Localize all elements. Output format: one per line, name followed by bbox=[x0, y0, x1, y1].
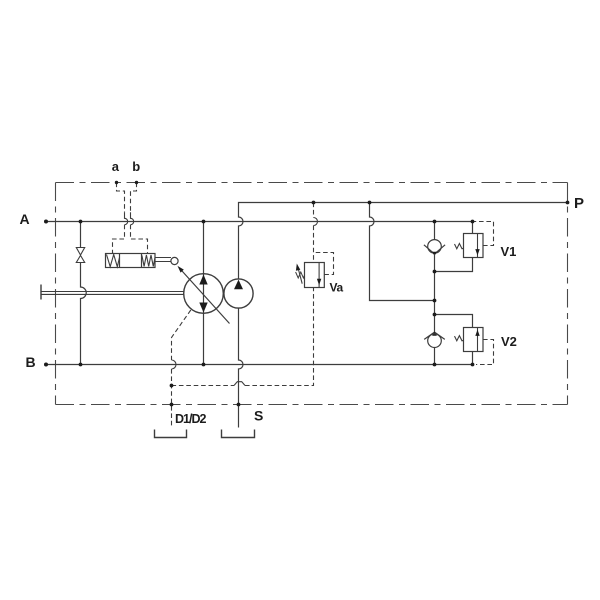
svg-text:D1/D2: D1/D2 bbox=[175, 412, 206, 426]
node Va on P bbox=[312, 201, 316, 205]
node S on boundary bbox=[237, 403, 241, 407]
node supply bbox=[433, 299, 437, 303]
Va adjustment arrow bbox=[299, 270, 303, 284]
boundary frame (dash-dot envelope) bbox=[56, 183, 568, 405]
wire line B bbox=[46, 364, 473, 366]
shaft end bar bbox=[40, 285, 42, 300]
V2 pilot line (dashed) bbox=[476, 340, 494, 365]
Va spring bbox=[296, 272, 305, 278]
svg-text:A: A bbox=[20, 211, 30, 227]
supply riser from P to check valve column bbox=[370, 203, 435, 301]
V2 flow line with up arrow bbox=[477, 328, 479, 352]
lever pin circle bbox=[171, 257, 178, 264]
servo piston left wall bbox=[119, 254, 121, 268]
servo rod (double line) bbox=[155, 258, 171, 262]
wire node to V2 inlet bbox=[435, 315, 473, 328]
svg-text:a: a bbox=[112, 159, 120, 174]
pilot b hop over line A bbox=[131, 212, 134, 224]
node V2 outlet on B bbox=[471, 363, 475, 367]
svg-text:B: B bbox=[26, 354, 36, 370]
wire CV1 to V1 return node bbox=[434, 254, 436, 272]
V1 spring bbox=[455, 244, 464, 249]
servo piston right wall bbox=[141, 254, 143, 268]
wire node to CV2 bbox=[434, 315, 436, 333]
wire CV2 to line B bbox=[434, 348, 436, 365]
node P port bbox=[566, 201, 570, 205]
servo cylinder body bbox=[106, 254, 156, 268]
servo right spring bbox=[142, 255, 155, 266]
svg-text:V2: V2 bbox=[501, 334, 517, 349]
check valve CV2 seat (inverted) bbox=[424, 332, 445, 339]
Va pilot loop (dashed) bbox=[314, 253, 334, 275]
pilot a hop over line A bbox=[125, 212, 128, 224]
Va supply hop over line A bbox=[314, 218, 318, 226]
node A port bbox=[44, 220, 48, 224]
node CV1 on A bbox=[433, 220, 437, 224]
drain manifold (dashed, Va tank line) bbox=[172, 288, 314, 386]
relief valve Va body bbox=[305, 263, 325, 288]
node drain manifold bbox=[170, 384, 174, 388]
charge pump circle (fixed) bbox=[224, 279, 253, 308]
orifice (two triangles tip to tip) bbox=[76, 248, 84, 263]
check valve CV1 seat bbox=[424, 245, 445, 254]
node riser on P bbox=[368, 201, 372, 205]
node V1 inlet corner bbox=[471, 220, 475, 224]
V1 pilot line (dashed) bbox=[473, 222, 494, 246]
relief valve V2 body bbox=[464, 328, 484, 352]
drain manifold hop over S line bbox=[234, 382, 245, 386]
port bracket S bbox=[222, 430, 255, 438]
node pump bottom on B bbox=[202, 363, 206, 367]
pilot line b bbox=[131, 183, 148, 254]
svg-text:S: S bbox=[254, 408, 263, 424]
node CV2 on B bbox=[433, 363, 437, 367]
drain hop over line B bbox=[172, 360, 177, 369]
variable displacement arrow (diagonal through pump) bbox=[181, 270, 230, 324]
V2 outlet wire to line B bbox=[472, 352, 474, 365]
check valve CV2 ball bbox=[428, 334, 442, 348]
Va flow line with down arrow bbox=[318, 263, 320, 288]
svg-text:b: b bbox=[132, 159, 140, 174]
V2 spring bbox=[455, 336, 464, 341]
node B port bbox=[44, 363, 48, 367]
node pump top on A bbox=[202, 220, 206, 224]
wire line A bbox=[46, 222, 473, 234]
node a on boundary bbox=[115, 181, 118, 184]
node V2 inlet bbox=[433, 313, 437, 317]
pump bottom flow triangle (down) bbox=[199, 303, 207, 313]
wire V1 return to node bbox=[435, 258, 473, 272]
servo left spring bbox=[107, 255, 120, 267]
main pump circle (variable) bbox=[184, 274, 224, 314]
node D1/D2 on boundary bbox=[170, 403, 174, 407]
svg-text:V1: V1 bbox=[501, 244, 517, 259]
port bracket D1/D2 bbox=[155, 430, 187, 438]
column wire between nodes bbox=[434, 272, 436, 315]
pump top flow triangle (up) bbox=[199, 275, 207, 285]
drive shaft (double line) bbox=[41, 292, 184, 295]
orifice branch wire A to B bbox=[81, 222, 87, 365]
relief valve V1 body bbox=[464, 234, 484, 258]
pilot line a bbox=[113, 183, 125, 254]
case drain line (dashed) pump to D1/D2 bbox=[172, 310, 191, 360]
charge pump flow triangle (up) bbox=[234, 280, 243, 290]
wire line P (charge pump riser to P rail) bbox=[239, 203, 568, 280]
node orifice bottom bbox=[79, 363, 83, 367]
node b on boundary bbox=[135, 181, 138, 184]
node V1 return bbox=[433, 270, 437, 274]
check valve CV1 ball bbox=[428, 240, 442, 254]
V1 flow line with down arrow bbox=[477, 234, 479, 258]
pump A-side wire (through circle, A to B) bbox=[203, 222, 205, 365]
suction wire S (charge pump down to port S) bbox=[239, 308, 244, 427]
svg-text:Va: Va bbox=[330, 280, 344, 294]
drain to port D1/D2 bbox=[171, 369, 173, 428]
Va pilot supply (dashed from P rail) bbox=[313, 203, 315, 263]
check valve column upper wire bbox=[434, 222, 436, 240]
node orifice top bbox=[79, 220, 83, 224]
svg-text:P: P bbox=[574, 195, 584, 212]
